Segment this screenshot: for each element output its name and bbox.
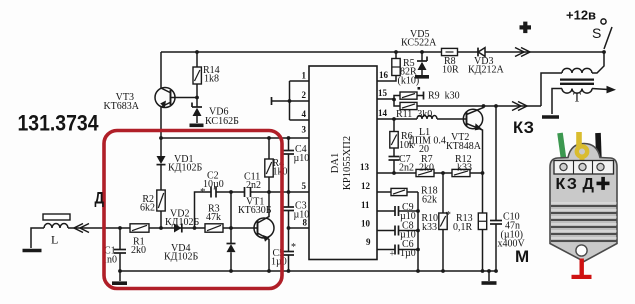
svg-text:КД102Б: КД102Б	[164, 252, 198, 263]
resistor R5	[392, 59, 400, 76]
svg-text:1µ0: 1µ0	[400, 248, 416, 259]
node R10 bottom	[441, 269, 445, 273]
wire C1 column	[119, 228, 121, 271]
svg-text:S: S	[592, 25, 601, 41]
wire R11 to KZ node (long)	[417, 105, 541, 107]
wire R7-R12 link	[434, 172, 452, 174]
diode VD2	[174, 224, 182, 233]
photo: wire green	[560, 133, 564, 162]
label R3	[206, 204, 221, 224]
node C2/C11/VD4 junction	[229, 190, 233, 194]
node C2 corner on main wire	[193, 226, 197, 230]
label VT2	[446, 132, 482, 152]
label VD2	[165, 209, 199, 229]
wire C4 column	[288, 138, 290, 192]
node C10 top	[494, 104, 498, 108]
label C5	[271, 248, 287, 268]
label C11	[244, 172, 261, 192]
svg-text:2k0: 2k0	[419, 163, 434, 174]
svg-text:1µ0: 1µ0	[271, 257, 287, 268]
svg-text:10: 10	[361, 219, 371, 229]
label L1	[408, 127, 446, 155]
diode VD1	[157, 156, 166, 165]
pin number 16	[379, 70, 389, 80]
wire main input row	[68, 227, 258, 229]
capacitor C7	[389, 157, 400, 161]
wire VT3 emitter down	[161, 103, 170, 139]
capacitor C10	[490, 221, 502, 225]
label VD5	[401, 29, 437, 49]
svg-text:k33: k33	[422, 222, 437, 233]
capacitor C2	[211, 187, 216, 198]
wire R18 to cap bus	[407, 191, 418, 193]
capacitor C1	[114, 250, 126, 254]
wire VD1-R2 column	[160, 138, 162, 228]
pin number 1	[302, 71, 307, 81]
wire M ground stub	[488, 271, 490, 281]
svg-text:14: 14	[378, 108, 388, 118]
svg-text:КД212А: КД212А	[468, 65, 504, 76]
node R13 bottom	[481, 269, 485, 273]
svg-text:R11 3k0: R11 3k0	[396, 109, 432, 120]
label C3	[294, 201, 310, 221]
svg-text:М: М	[515, 247, 529, 266]
zener VD5	[417, 57, 427, 71]
node R5 top on rail	[394, 50, 398, 54]
wire VT1 collector	[258, 192, 270, 223]
wire capacitor bus	[417, 192, 419, 271]
resistor R8	[442, 48, 458, 55]
photo: wire black	[598, 133, 599, 162]
transformer T primary	[562, 68, 592, 73]
ground at transformer	[542, 115, 559, 119]
pin number 15	[378, 88, 388, 98]
wire R9 branch	[394, 96, 400, 100]
wire transformer primary right	[592, 52, 604, 73]
node C1 top	[118, 226, 122, 230]
svg-text:КД102Б: КД102Б	[165, 217, 199, 228]
node rail left end	[118, 269, 122, 273]
wire top +12V rail	[161, 51, 604, 53]
label R14	[203, 65, 220, 85]
wire R5 top	[395, 52, 397, 59]
svg-text:КС162Б: КС162Б	[205, 116, 239, 127]
label R10	[421, 213, 438, 233]
node R2 bottom	[159, 226, 163, 230]
label C6	[400, 239, 416, 259]
wire R14 bottom to base node	[196, 84, 198, 98]
wire C2 left corner	[195, 192, 212, 228]
node pin14 junction	[392, 117, 396, 121]
resistor R6	[390, 132, 398, 149]
label R9	[428, 91, 460, 102]
node VT1 emitter bottom	[267, 269, 271, 273]
wire C5 column	[288, 228, 290, 271]
wire R12 to emitter column	[470, 172, 483, 174]
svg-text:R9 k30: R9 k30	[428, 91, 460, 102]
diode VD3	[478, 48, 485, 57]
photo: red pin	[580, 259, 584, 278]
wire pin13 stub	[377, 172, 394, 174]
label +12v	[566, 8, 596, 23]
node M ground stub top	[487, 269, 491, 273]
resistor R4	[265, 159, 273, 177]
ground at inductor	[23, 249, 42, 253]
resistor R3	[205, 224, 223, 232]
svg-text:16: 16	[379, 70, 389, 80]
pin number 5	[302, 181, 307, 191]
inductor L winding	[44, 224, 68, 229]
connector chevron input	[74, 224, 89, 233]
wire VT1 emitter	[258, 233, 270, 271]
wire R4 column	[268, 138, 270, 192]
capacitor C8	[395, 226, 399, 236]
node R4 bottom / VT1 collector	[267, 190, 271, 194]
ground at VD6	[190, 124, 204, 128]
pin number 9	[366, 237, 371, 247]
node C6 bus junction	[416, 248, 420, 252]
wire VT2 collector	[467, 106, 484, 115]
wire C10 column	[495, 106, 497, 271]
red highlight box	[104, 131, 282, 289]
diode VD4	[227, 244, 236, 253]
svg-text:10R: 10R	[442, 65, 459, 76]
photo: heatsink ribs	[551, 203, 616, 243]
label R12	[455, 154, 472, 174]
label L	[51, 233, 58, 247]
resistor R14	[193, 67, 201, 84]
resistor R1	[130, 224, 149, 232]
label C1	[102, 246, 117, 266]
svg-text:Д: Д	[583, 176, 595, 193]
select mark R9	[418, 87, 421, 90]
svg-text:6k2: 6k2	[140, 203, 155, 214]
capacitor C11	[245, 187, 251, 197]
label VT1	[238, 197, 272, 217]
svg-text:12: 12	[361, 181, 371, 191]
wire C8 right	[399, 230, 419, 232]
svg-text:(k10): (k10)	[398, 76, 420, 87]
resistor R10	[439, 213, 447, 230]
arrow output	[607, 86, 617, 94]
svg-text:+: +	[390, 249, 395, 259]
transformer T secondary	[562, 89, 592, 94]
svg-text:*: *	[291, 242, 296, 253]
label R13	[453, 213, 473, 233]
label C10	[498, 212, 526, 250]
svg-text:КС522А: КС522А	[401, 38, 437, 49]
node C5 bottom	[287, 269, 291, 273]
polarity mark C6	[390, 249, 395, 259]
wire VT3 base to R14/VD6 node	[171, 97, 198, 99]
pin number 8	[303, 218, 308, 228]
wire pin14 to L1	[394, 118, 417, 120]
label KZ	[513, 119, 534, 137]
label C9	[400, 202, 416, 222]
wire KZ riser to transformer	[541, 73, 562, 106]
svg-text:T: T	[573, 90, 581, 105]
wire VD4 column	[230, 192, 232, 271]
label R7	[419, 154, 434, 174]
label D input	[95, 190, 105, 208]
svg-text:131.3734: 131.3734	[18, 111, 100, 136]
node VD4 bottom	[229, 269, 233, 273]
node C10 bottom	[494, 269, 498, 273]
node VT3 emitter junction	[159, 136, 163, 140]
wire VT2 emitter / R13 column	[467, 124, 483, 272]
wire R14 column top	[196, 52, 198, 67]
resistor R12	[452, 169, 470, 176]
connector chevron KZ	[512, 102, 527, 111]
node bus bottom	[416, 269, 420, 273]
transformer core	[560, 80, 594, 84]
wire VD5 stems	[421, 52, 423, 76]
svg-text:2n2: 2n2	[399, 163, 414, 174]
label R11	[396, 109, 432, 120]
label R4	[273, 158, 288, 178]
capacitor C5	[283, 252, 294, 256]
photo: wire yellow	[576, 132, 582, 147]
label VD6	[205, 107, 239, 128]
label C4	[294, 144, 310, 164]
label S	[592, 25, 601, 41]
svg-text:2n2: 2n2	[246, 180, 261, 191]
svg-text:2: 2	[302, 90, 307, 100]
svg-text:11: 11	[361, 200, 370, 210]
wire pin9 stub	[377, 249, 395, 251]
photo: terminal screws	[560, 163, 567, 170]
inductor L1	[417, 116, 437, 120]
resistor R18	[391, 188, 407, 195]
capacitor C4	[283, 151, 294, 155]
wire R6-C7 column	[393, 119, 395, 173]
svg-text:Д: Д	[95, 190, 105, 208]
svg-text:47k: 47k	[206, 212, 221, 223]
capacitor C9	[395, 206, 399, 216]
inductor L core	[43, 214, 70, 220]
wire R9 to terminal	[417, 95, 424, 97]
svg-text:4: 4	[302, 109, 307, 119]
svg-text:1: 1	[302, 71, 307, 81]
node R12 right junction	[481, 171, 485, 175]
label VD1	[168, 154, 202, 174]
wire C9 right	[399, 210, 419, 212]
node C4 top	[287, 136, 291, 140]
transistor VT2	[463, 109, 482, 130]
transistor VT3	[155, 88, 175, 108]
svg-text:15: 15	[378, 88, 388, 98]
photo: rib lines	[551, 205, 617, 207]
wire switch lever	[604, 27, 612, 49]
node VT2 collector on KZ wire	[482, 104, 486, 108]
resistor R13	[478, 213, 486, 230]
node R4 top	[267, 136, 271, 140]
pin number 2	[302, 90, 307, 100]
node C3 bottom	[287, 226, 291, 230]
pin number 13	[360, 162, 370, 172]
node VD5 top	[420, 50, 424, 54]
photo: regulator body	[550, 144, 617, 262]
op-amp IC DA1 box	[309, 66, 377, 260]
wire pin11 stub	[377, 210, 395, 212]
svg-text:DA1: DA1	[330, 153, 341, 173]
label VD4	[164, 243, 198, 263]
wire C6 right	[399, 249, 419, 251]
resistor R11	[400, 102, 417, 109]
wire pin8 stub	[289, 227, 310, 229]
svg-text:k33: k33	[457, 163, 472, 174]
wire VD6 anode	[196, 98, 198, 108]
svg-text:µ10: µ10	[294, 210, 310, 221]
label VT3	[103, 92, 139, 112]
resistor R2	[157, 190, 165, 211]
ground at VD5	[415, 75, 429, 79]
svg-text:КД102Б: КД102Б	[168, 163, 202, 174]
wire inductor left leg	[31, 228, 44, 248]
wire pin3 row	[161, 137, 309, 139]
wire L1 to VT2 base	[437, 118, 467, 120]
resistor R9	[400, 92, 417, 99]
label C2	[203, 171, 224, 191]
ground at M rail	[482, 281, 497, 285]
transistor VT1	[254, 218, 274, 242]
wire pin16 stub	[377, 76, 396, 82]
node pin13 junction	[392, 171, 396, 175]
svg-text:*: *	[446, 209, 452, 221]
svg-text:KT683A: KT683A	[103, 101, 139, 112]
wire pin14 stub	[377, 118, 394, 120]
photo: terminal strip	[554, 161, 614, 175]
svg-text:0,1R: 0,1R	[453, 222, 473, 233]
polarity mark C2	[200, 186, 206, 198]
svg-text:КЗ: КЗ	[556, 176, 578, 193]
IC label DA1	[330, 153, 341, 173]
wire R10 column	[442, 173, 444, 271]
pin number 3	[302, 125, 307, 135]
label C7	[399, 154, 414, 174]
svg-text:*: *	[200, 186, 206, 198]
wire C3 column	[288, 192, 290, 228]
pin number 14	[378, 108, 388, 118]
wire R11 branch	[394, 100, 400, 107]
terminal +12V circle	[601, 19, 606, 24]
wire bottom ground rail	[120, 270, 497, 272]
connector chevron plus out	[515, 48, 530, 57]
svg-text:10µ0: 10µ0	[203, 179, 224, 190]
svg-text:КР1055ХП2: КР1055ХП2	[342, 136, 353, 190]
svg-text:5: 5	[302, 181, 307, 191]
svg-text:КЗ: КЗ	[513, 119, 534, 137]
svg-text:КТ848А: КТ848А	[446, 141, 482, 152]
node C9 bus junction	[416, 209, 420, 213]
pin number 11	[361, 200, 370, 210]
node switch junction	[602, 50, 606, 54]
svg-text:3: 3	[302, 125, 307, 135]
svg-text:2k0: 2k0	[131, 245, 146, 256]
node pin15 junction	[392, 98, 396, 102]
resistor R7	[416, 169, 434, 176]
wire pin15 stub	[377, 98, 394, 100]
capacitor C3	[283, 207, 294, 211]
label R1	[131, 237, 146, 257]
wire secondary right arrow line	[592, 89, 608, 90]
svg-text:+12в: +12в	[566, 8, 596, 23]
capacitor C6	[395, 245, 399, 255]
IC label KR1055XP2	[342, 136, 353, 190]
photo: mounting hole	[576, 245, 587, 256]
wire left-end ground stub	[119, 271, 121, 281]
node R7/R12/R10 junction	[441, 171, 445, 175]
terminal bar after R9	[423, 92, 425, 100]
label R5	[398, 58, 420, 87]
svg-text:13: 13	[360, 162, 370, 172]
node C4 bottom	[287, 190, 291, 194]
pin number 4	[302, 109, 307, 119]
label R6	[399, 131, 414, 151]
svg-text:µ10: µ10	[294, 153, 310, 164]
select mark R10	[446, 209, 452, 221]
wire VT3 collector	[161, 52, 170, 93]
node VD4 main-wire crossing	[229, 226, 233, 230]
svg-text:1k0: 1k0	[273, 167, 288, 178]
polarity mark C5	[291, 242, 296, 253]
zener VD6	[192, 103, 202, 117]
label R8	[442, 56, 459, 76]
svg-text:9: 9	[366, 237, 371, 247]
wire C2-C11 mid row	[216, 191, 245, 193]
node VT3 base junction	[195, 96, 199, 100]
wire pin12 stub	[377, 191, 391, 193]
label T	[573, 90, 581, 105]
wire secondary left leg	[552, 89, 562, 115]
svg-text:62k: 62k	[422, 195, 437, 206]
svg-text:1k8: 1k8	[204, 74, 219, 85]
wire pin10 stub	[377, 230, 395, 232]
label M	[515, 247, 529, 266]
label VD3	[468, 56, 504, 76]
node C8 bus junction	[416, 229, 420, 233]
pin number 12	[361, 181, 371, 191]
wire pin5 row right of C11	[251, 191, 310, 193]
wire pin13 row to R7	[394, 172, 416, 174]
bracket pins 1-2-4	[272, 81, 310, 120]
label R2	[140, 194, 155, 214]
title 131.3734	[18, 111, 100, 136]
svg-text:L: L	[51, 233, 58, 247]
ground under C1 rail end	[112, 281, 127, 285]
pin number 10	[361, 219, 371, 229]
plus symbol	[520, 22, 532, 33]
svg-text:КТ630Б: КТ630Б	[238, 205, 272, 216]
label R18	[421, 186, 438, 206]
wire VD6 to ground	[196, 116, 198, 123]
label C8	[400, 221, 416, 241]
node R14 top	[195, 50, 199, 54]
